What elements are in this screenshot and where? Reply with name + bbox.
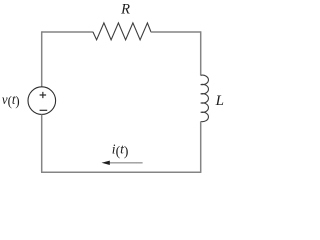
wire bottom side [41, 171, 201, 173]
V1 minus sign [40, 109, 48, 111]
current arrow head [102, 161, 110, 165]
svg-text:L: L [215, 93, 224, 109]
current arrow shaft [108, 162, 143, 164]
V1 plus sign [40, 92, 47, 98]
wire top-right segment [151, 31, 201, 33]
svg-text:i(t): i(t) [112, 142, 129, 159]
wire right side lower [200, 122, 202, 173]
wire left side upper [41, 31, 43, 87]
svg-text:v(t): v(t) [2, 93, 20, 110]
voltage source V1 [28, 87, 56, 115]
svg-text:R: R [120, 2, 130, 18]
wire top-left segment [42, 31, 93, 33]
resistor R1 [93, 23, 151, 40]
inductor L1 [201, 75, 209, 122]
wire right side upper [200, 31, 202, 75]
wire left side lower [41, 114, 43, 172]
